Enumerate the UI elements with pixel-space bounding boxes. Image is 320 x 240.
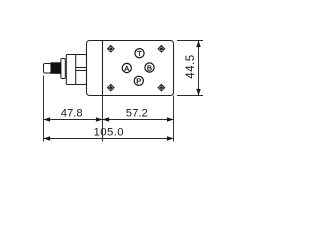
svg-text:44.5: 44.5 (185, 54, 197, 78)
svg-text:B: B (147, 63, 152, 72)
svg-text:105.0: 105.0 (94, 127, 125, 139)
svg-text:57.2: 57.2 (126, 107, 148, 119)
svg-text:P: P (136, 77, 141, 86)
svg-text:T: T (137, 49, 142, 58)
svg-text:47.8: 47.8 (61, 107, 83, 119)
svg-text:A: A (124, 64, 130, 73)
